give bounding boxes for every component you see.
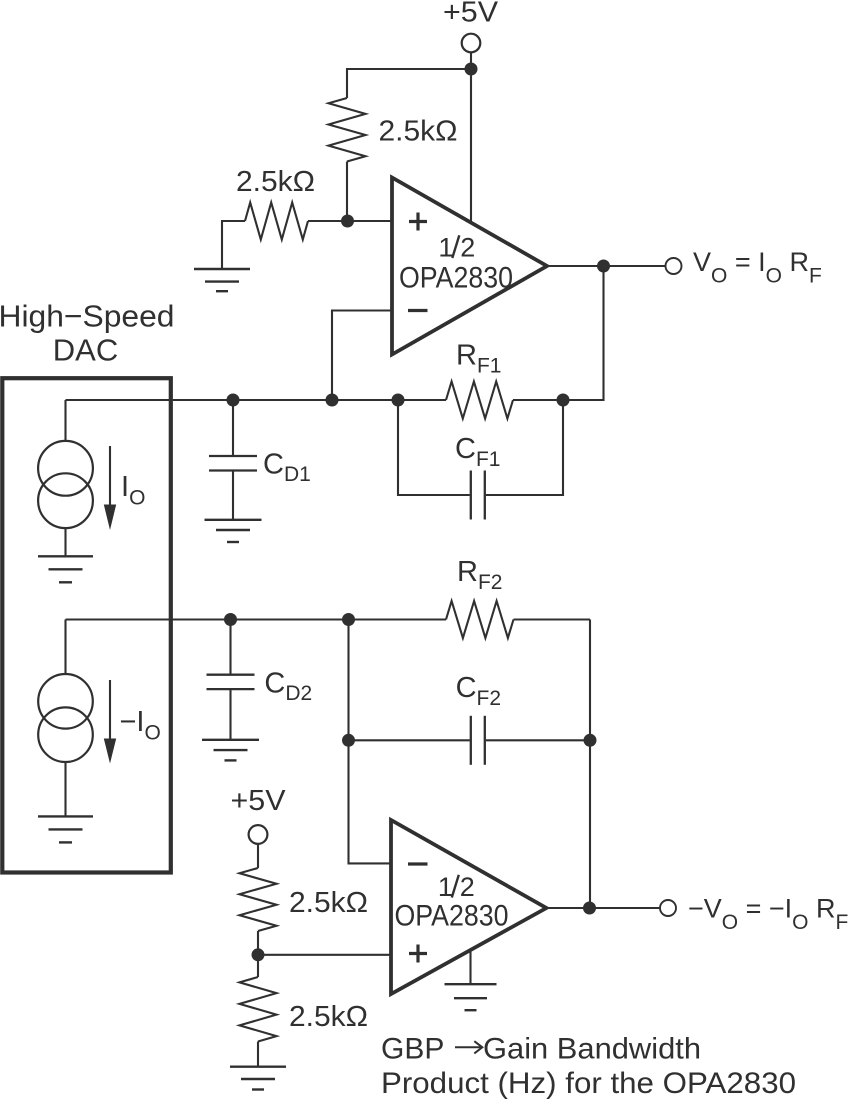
resistor RF2 (feedback): [446, 601, 514, 638]
wire node B (DAC -IO output): [66, 618, 447, 620]
terminal -VO output: [660, 900, 676, 916]
DAC block box: [2, 378, 171, 872]
current source IO: [38, 441, 93, 496]
svg-text:RF2: RF2: [457, 556, 502, 594]
capacitor CD1 (to ground): [232, 400, 234, 456]
wire -input riser (node B to U2): [349, 620, 392, 864]
svg-text:1: 1: [438, 233, 453, 263]
svg-text:CD1: CD1: [263, 449, 311, 487]
resistor R1 2.5k (vertical, to +5V): [329, 98, 366, 162]
ground (U2): [445, 983, 497, 985]
capacitor CF1 (feedback): [398, 400, 470, 495]
svg-text:2.5kΩ: 2.5kΩ: [379, 116, 458, 148]
wire R2 to +input node: [308, 220, 348, 222]
op-amp U1 1/2 OPA2830: [392, 178, 547, 355]
terminal +5V (bottom): [249, 825, 268, 844]
wire U1 output: [547, 265, 666, 267]
arrow -IO direction: [109, 680, 111, 740]
resistor RF1 (feedback): [446, 382, 513, 419]
wire node A (DAC IO output): [66, 399, 447, 401]
wire RF2/CF2 right to U2 output: [589, 620, 591, 909]
svg-text:CD2: CD2: [264, 668, 312, 706]
ground (CD1): [205, 519, 262, 521]
junction RF1 right node: [557, 394, 570, 407]
ground (-IO source): [38, 815, 93, 817]
ground (R2): [194, 268, 250, 270]
svg-text:2: 2: [460, 233, 475, 263]
ground (CD2): [202, 739, 259, 741]
wire +input node to U2: [258, 954, 391, 956]
junction +input node: [341, 215, 354, 228]
wire R1 bottom to +input node: [346, 162, 348, 222]
wire node B to current source -IO: [64, 620, 66, 675]
resistor R3 2.5k (to +5V): [240, 868, 277, 931]
junction CF2 left: [342, 734, 355, 747]
arrow IO direction: [109, 446, 111, 506]
wire +5V terminal to node: [470, 52, 472, 69]
wire -IO source to ground: [64, 762, 66, 816]
svg-text:OPA2830: OPA2830: [395, 900, 509, 933]
wire U2 output: [546, 907, 660, 909]
wire RF1 right lead: [513, 399, 563, 401]
terminal VO output: [666, 258, 682, 274]
current source -IO: [38, 674, 93, 729]
svg-text:CF2: CF2: [456, 672, 501, 710]
junction node B / CD2: [224, 613, 237, 626]
svg-text:IO: IO: [121, 471, 145, 510]
ground (R4): [230, 1065, 286, 1067]
svg-text:OPA2830: OPA2830: [399, 262, 513, 295]
junction node B / -input riser: [342, 613, 355, 626]
junction U1 output: [597, 260, 610, 273]
wire +5V node to R1 top: [347, 69, 471, 98]
wire +5V node to U1 power pin: [470, 69, 472, 223]
svg-text:2.5kΩ: 2.5kΩ: [236, 166, 315, 198]
svg-text:+5V: +5V: [231, 785, 287, 817]
svg-text:High−Speed: High−Speed: [0, 299, 175, 334]
resistor R2 2.5k (horizontal, to ground): [245, 203, 308, 240]
svg-text:Product (Hz) for the OPA2830: Product (Hz) for the OPA2830: [381, 1067, 796, 1100]
terminal +5V (top): [462, 34, 481, 53]
svg-text:+5V: +5V: [443, 0, 499, 29]
svg-text:GBP: GBP: [381, 1033, 444, 1066]
wire R4 to ground: [257, 1042, 259, 1067]
svg-text:Gain Bandwidth: Gain Bandwidth: [483, 1033, 701, 1066]
wire R3 to R4: [257, 931, 259, 977]
junction node A / CD1: [227, 394, 240, 407]
svg-text:−IO: −IO: [120, 706, 161, 745]
ground (IO source): [38, 555, 93, 557]
junction +input node (U2): [252, 948, 265, 961]
svg-text:CF1: CF1: [455, 433, 500, 471]
svg-text:RF1: RF1: [456, 340, 501, 378]
junction +5V node: [465, 63, 478, 76]
wire ground leg to R2: [222, 221, 245, 269]
wire IO source to ground: [64, 528, 66, 556]
junction U2 output: [583, 902, 596, 915]
wire RF2 right to corner: [514, 618, 591, 620]
wire U1 -input to node A: [332, 311, 392, 401]
junction node A / CF1 left: [392, 394, 405, 407]
wire U1 output to RF1 right: [563, 266, 604, 400]
wire node A to current source IO: [64, 400, 66, 441]
svg-text:2: 2: [460, 872, 475, 902]
wire +5V to R3: [257, 844, 259, 868]
svg-text:−VO = −IO RF: −VO = −IO RF: [688, 894, 848, 935]
svg-text:1: 1: [438, 872, 453, 902]
capacitor CD2 (to ground): [229, 620, 231, 675]
wire U2 power pin to ground: [469, 951, 471, 985]
wire +input node to U1: [348, 220, 393, 222]
resistor R4 2.5k (to ground): [240, 977, 277, 1042]
svg-text:DAC: DAC: [53, 333, 118, 368]
svg-text:2.5kΩ: 2.5kΩ: [289, 887, 368, 919]
capacitor CF2 (feedback): [349, 739, 470, 741]
op-amp U2 1/2 OPA2830: [391, 820, 546, 994]
svg-text:2.5kΩ: 2.5kΩ: [289, 1001, 368, 1033]
svg-text:VO = IO RF: VO = IO RF: [693, 247, 822, 288]
junction CF2 right: [584, 734, 597, 747]
junction node A / -input riser: [326, 394, 339, 407]
